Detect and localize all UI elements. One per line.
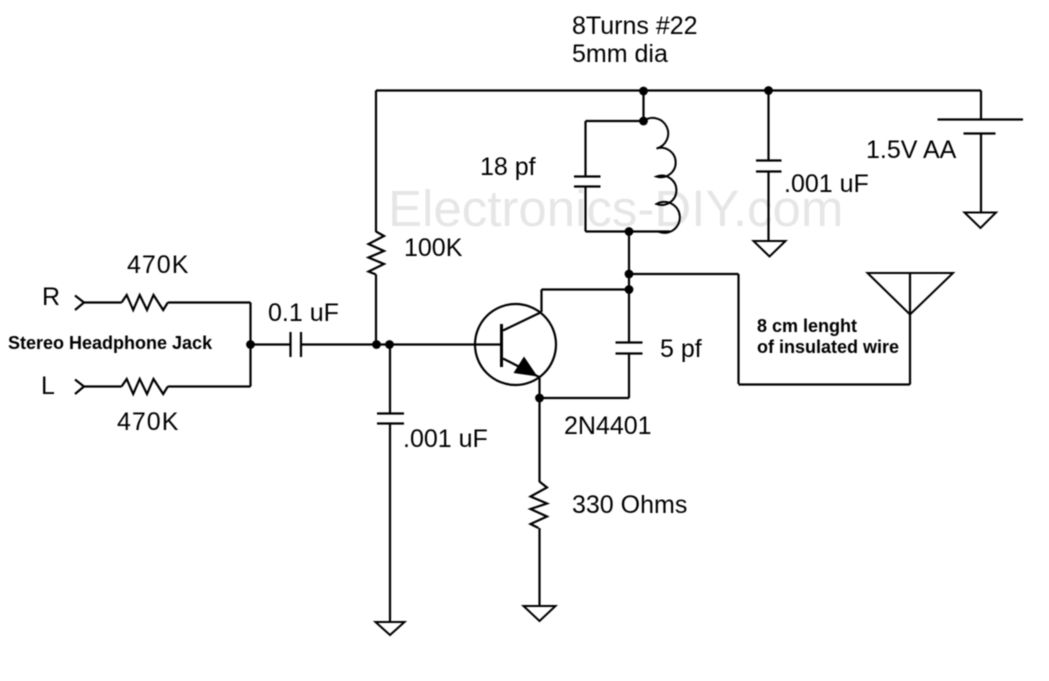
node junction dot emitter bbox=[535, 394, 544, 403]
resistor 100K vertical bbox=[369, 91, 385, 345]
transistor Q1 2N4401 bbox=[475, 304, 556, 385]
node junction dot bus/coil bbox=[639, 87, 648, 96]
svg-text:L: L bbox=[41, 372, 55, 400]
wire coil feed stub bbox=[642, 91, 644, 121]
antenna bbox=[868, 273, 954, 385]
svg-text:.001 uF: .001 uF bbox=[403, 425, 488, 453]
svg-text:1.5V AA: 1.5V AA bbox=[866, 136, 957, 164]
wire antenna feed horizontal bbox=[629, 273, 739, 275]
wire tank left lower bbox=[584, 187, 586, 232]
svg-text:.001 uF: .001 uF bbox=[784, 170, 869, 198]
wire collector bbox=[542, 288, 630, 290]
wire collector vertical bbox=[540, 290, 542, 313]
capacitor .001uF decoupling bbox=[756, 91, 782, 242]
svg-text:0.1 uF: 0.1 uF bbox=[268, 299, 339, 327]
inductor coil 8 turns bbox=[644, 118, 680, 233]
svg-text:2N4401: 2N4401 bbox=[564, 412, 652, 440]
node junction dot jack bbox=[246, 340, 255, 349]
wire tank bottom bbox=[586, 230, 671, 232]
svg-text:100K: 100K bbox=[404, 234, 463, 262]
wire tank left upper bbox=[584, 121, 586, 177]
capacitor .001uF base bypass bbox=[377, 345, 404, 623]
svg-text:Stereo Headphone Jack: Stereo Headphone Jack bbox=[8, 333, 213, 353]
resistor 470K bottom bbox=[84, 379, 251, 394]
node junction dot collector bbox=[625, 285, 634, 294]
capacitor 18pf bbox=[574, 177, 601, 187]
resistor 330 Ohms bbox=[531, 398, 548, 606]
svg-text:R: R bbox=[42, 283, 60, 311]
annotation 8 cm lenght of insulated wire bbox=[757, 316, 899, 357]
wire antenna feed vertical bbox=[737, 274, 739, 384]
wire tank top bbox=[586, 120, 644, 122]
wire antenna feed bottom bbox=[739, 383, 911, 385]
svg-text:of insulated wire: of insulated wire bbox=[757, 337, 899, 357]
svg-text:5 pf: 5 pf bbox=[660, 335, 702, 363]
wire oscillator vertical lower bbox=[628, 354, 630, 399]
ground under decoupling cap bbox=[754, 241, 786, 257]
capacitor 0.1uF coupling bbox=[251, 332, 302, 357]
connector L input chevron bbox=[75, 380, 84, 395]
wire emitter vertical bbox=[538, 378, 540, 399]
wire top supply bus bbox=[376, 89, 981, 91]
connector R input chevron bbox=[75, 296, 84, 311]
node junction dot base/.001uF bbox=[385, 340, 394, 349]
node junction dot tank top bbox=[639, 117, 648, 126]
battery 1.5V AA bbox=[938, 91, 1024, 213]
svg-text:470K: 470K bbox=[117, 408, 179, 436]
svg-text:8 cm lenght: 8 cm lenght bbox=[757, 316, 857, 336]
wire oscillator vertical upper bbox=[628, 232, 630, 343]
ground under 330 Ohms bbox=[524, 606, 556, 621]
svg-text:470K: 470K bbox=[127, 251, 189, 279]
svg-text:8Turns #22: 8Turns #22 bbox=[572, 12, 698, 40]
svg-text:Electronics-DIY.com: Electronics-DIY.com bbox=[388, 180, 843, 237]
ground under base bypass cap bbox=[376, 622, 405, 635]
wire emitter to 5pf bbox=[540, 397, 630, 399]
svg-text:330 Ohms: 330 Ohms bbox=[572, 491, 687, 519]
node junction dot tank bottom bbox=[625, 227, 634, 236]
capacitor 5pf bbox=[616, 343, 643, 354]
node junction dot bus/.001uF bbox=[764, 86, 773, 95]
wire jack right vertical bbox=[249, 303, 251, 387]
node junction dot antenna feed bbox=[625, 270, 634, 279]
svg-text:5mm dia: 5mm dia bbox=[572, 40, 668, 68]
wire base bbox=[301, 343, 502, 345]
node junction dot base/100K bbox=[372, 340, 381, 349]
resistor 470K top bbox=[84, 295, 251, 310]
ground under battery bbox=[965, 213, 997, 229]
svg-text:18 pf: 18 pf bbox=[480, 153, 536, 181]
